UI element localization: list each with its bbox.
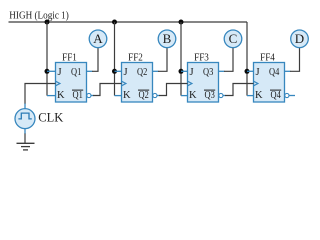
node A [89, 30, 107, 48]
wire Q-bar4 stub [289, 95, 295, 97]
wire rail drop to FF4 J/K [246, 22, 248, 96]
svg-text:B: B [163, 31, 172, 46]
wire FF2 J stub [115, 70, 123, 72]
wire FF4 K stub [247, 95, 255, 97]
ground [17, 143, 35, 150]
wire rail drop to FF1 J/K [46, 22, 48, 96]
wire Q4 to node D [290, 48, 300, 72]
svg-text:Q2: Q2 [137, 67, 147, 78]
node B [158, 30, 176, 48]
junction dot FF2 J [112, 69, 117, 74]
clock source CLK [15, 109, 35, 129]
wire Q4 stub [285, 70, 291, 72]
svg-text:K: K [57, 90, 65, 101]
svg-text:Q4: Q4 [269, 67, 280, 78]
wire Q2 to node B [158, 48, 167, 72]
svg-text:FF1: FF1 [62, 52, 77, 63]
wire rail drop to FF2 J/K [114, 22, 116, 96]
junction dot FF3 J [179, 69, 184, 74]
svg-text:J: J [58, 67, 62, 78]
svg-text:CLK: CLK [38, 111, 63, 125]
wire Q-bar3 stub [223, 95, 226, 97]
junction dot rail FF1 [45, 20, 50, 25]
svg-text:J: J [124, 67, 128, 78]
svg-text:FF4: FF4 [260, 52, 275, 63]
junction dot rail FF2 [112, 20, 117, 25]
wire CLK to ground [24, 134, 26, 144]
wire HIGH rail [9, 21, 248, 23]
svg-text:A: A [93, 31, 103, 46]
junction dot FF4 J [245, 69, 250, 74]
flip-flop FF1 [56, 52, 92, 102]
wire Q-bar2 stub [157, 95, 160, 97]
wire CLK to FF1 clock [25, 84, 56, 105]
wire Q-bar2 to FF3 clock [159, 84, 188, 96]
svg-text:HIGH (Logic 1): HIGH (Logic 1) [9, 11, 69, 22]
wire Q1 to node A [92, 48, 98, 72]
wire Q3 to node C [224, 48, 233, 72]
svg-text:K: K [123, 90, 131, 101]
wire Q-bar3 to FF4 clock [225, 84, 254, 96]
flip-flop FF3 [188, 52, 223, 102]
svg-text:J: J [190, 67, 194, 78]
wire FF1 J stub [47, 70, 57, 72]
wire Q1 stub [87, 70, 93, 72]
wire rail drop to FF3 J/K [180, 22, 182, 96]
wire Q-bar1 stub [91, 95, 94, 97]
wire CLK source top stub [24, 104, 26, 110]
wire Q-bar1 to FF2 clock [93, 84, 122, 96]
wire FF2 K stub [115, 95, 123, 97]
svg-text:Q1: Q1 [71, 67, 81, 78]
svg-text:FF2: FF2 [128, 52, 143, 63]
svg-text:J: J [256, 67, 260, 78]
svg-text:K: K [189, 90, 197, 101]
svg-text:K: K [255, 90, 263, 101]
wire FF4 J stub [247, 70, 255, 72]
wire CLK source bottom stub [24, 129, 26, 134]
svg-text:FF3: FF3 [194, 52, 209, 63]
flip-flop FF4 [254, 52, 290, 102]
node C [224, 30, 242, 48]
svg-text:C: C [229, 31, 238, 46]
node D [291, 30, 309, 48]
svg-text:Q4: Q4 [271, 90, 282, 101]
junction dot FF1 J [45, 69, 50, 74]
wire Q2 stub [153, 70, 159, 72]
svg-text:Q3: Q3 [205, 90, 215, 101]
wire FF1 K stub [47, 95, 57, 97]
wire FF3 J stub [181, 70, 189, 72]
wire FF3 K stub [181, 95, 189, 97]
svg-text:Q1: Q1 [73, 90, 83, 101]
junction dot rail FF3 [179, 20, 184, 25]
svg-text:Q2: Q2 [139, 90, 149, 101]
wire Q3 stub [219, 70, 225, 72]
flip-flop FF2 [122, 52, 157, 102]
svg-text:Q3: Q3 [203, 67, 213, 78]
svg-text:D: D [295, 31, 304, 46]
